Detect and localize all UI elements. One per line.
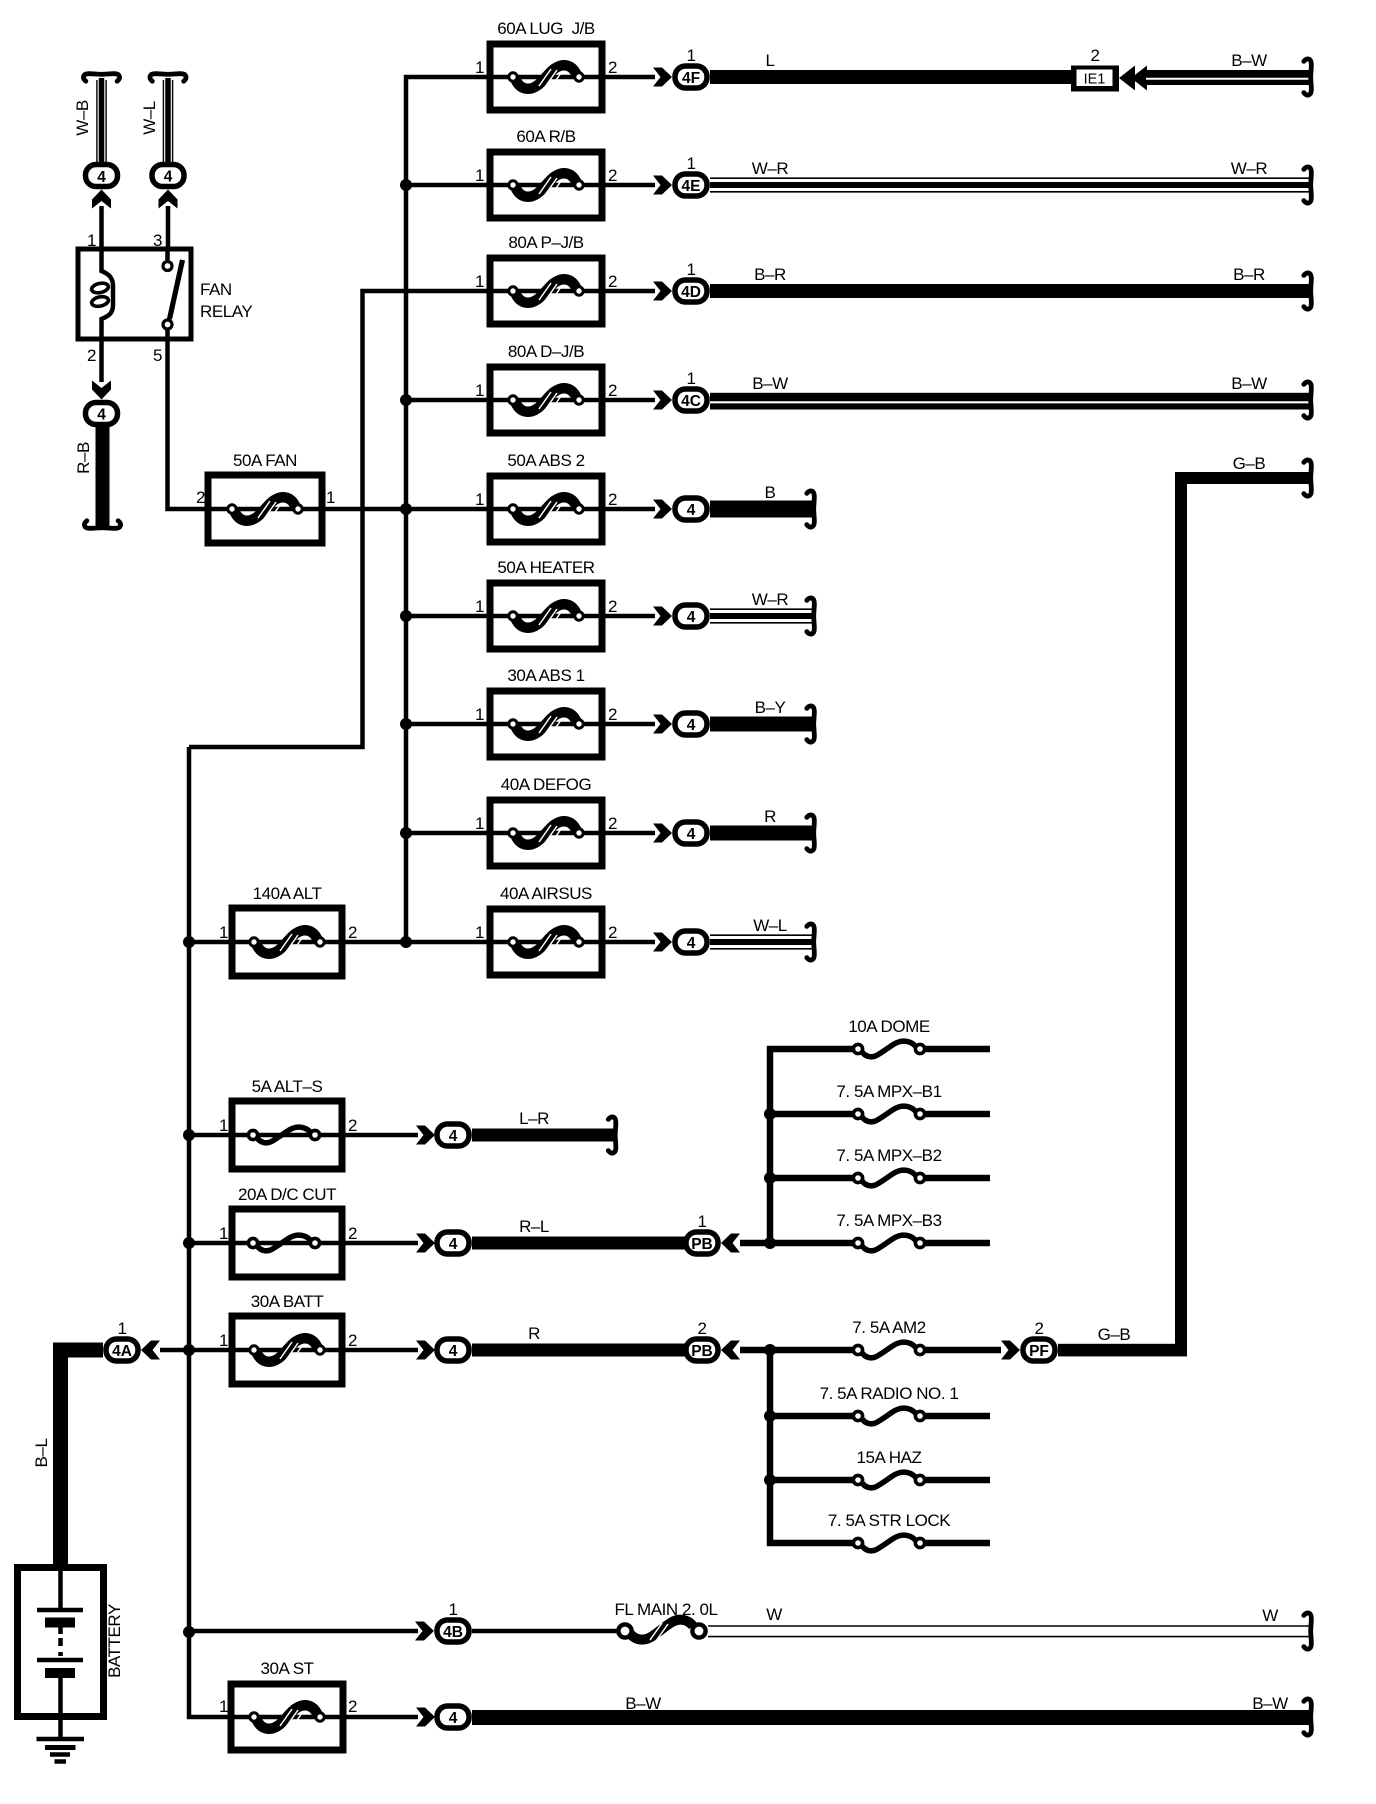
wire fuse to connector	[602, 398, 655, 403]
svg-text:R–L: R–L	[519, 1217, 549, 1236]
wire bus to fuse	[189, 1241, 232, 1246]
wire-break squiggle	[608, 1117, 616, 1153]
wire-break squiggle top of W-B	[83, 74, 119, 82]
battery cells	[37, 1564, 83, 1720]
wire B thick stub	[710, 501, 814, 518]
svg-text:1: 1	[475, 381, 484, 400]
svg-text:R–B: R–B	[74, 442, 93, 474]
wire bus B5	[770, 1350, 854, 1543]
svg-text:L: L	[765, 51, 774, 70]
svg-text:4C: 4C	[681, 393, 701, 410]
wire 140A ALT to 40A AIRSUS	[342, 940, 490, 945]
svg-text:B: B	[765, 483, 776, 502]
svg-text:60A R/B: 60A R/B	[516, 127, 575, 146]
svg-text:50A FAN: 50A FAN	[233, 451, 297, 470]
svg-text:7. 5A MPX–B3: 7. 5A MPX–B3	[836, 1211, 941, 1230]
svg-text:B–W: B–W	[625, 1694, 661, 1713]
svg-text:B–W: B–W	[1231, 374, 1267, 393]
wire-break squiggle	[1304, 1699, 1312, 1735]
arrow into connector 4D	[653, 282, 672, 301]
svg-text:40A DEFOG: 40A DEFOG	[501, 775, 591, 794]
wire B-L thick to battery	[61, 1350, 104, 1564]
svg-text:4: 4	[449, 1343, 458, 1360]
wire bus B3 to 140A ALT	[189, 940, 232, 945]
svg-text:4: 4	[449, 1128, 458, 1145]
svg-text:G–B: G–B	[1098, 1325, 1131, 1344]
svg-text:1: 1	[117, 1319, 126, 1338]
fuse 30A BATT	[232, 1316, 342, 1384]
fuse 60A LUG J/B	[490, 44, 602, 110]
wire-break squiggle	[1304, 273, 1312, 309]
wire G-B vertical + top run	[1181, 478, 1310, 1356]
svg-text:4: 4	[449, 1710, 458, 1727]
svg-text:2: 2	[608, 166, 617, 185]
wire-break squiggle	[807, 924, 815, 960]
fuse 10A DOME	[853, 1041, 990, 1057]
svg-text:RELAY: RELAY	[200, 302, 252, 321]
wire connector to fusible link	[472, 1629, 620, 1634]
arrow into connector 4 (up)	[159, 190, 178, 209]
svg-text:40A AIRSUS: 40A AIRSUS	[500, 884, 592, 903]
svg-text:W–L: W–L	[753, 916, 787, 935]
wire bus to fuse	[406, 614, 490, 619]
wire-break squiggle	[1304, 59, 1312, 95]
wire bus B4	[770, 1049, 854, 1243]
wire L thick	[710, 70, 1072, 84]
svg-text:R: R	[764, 807, 776, 826]
arrow into PB (left)	[721, 1234, 740, 1253]
connector 4C	[675, 389, 707, 411]
arrow into connector 4 (down)	[92, 381, 111, 400]
junction dots on B4	[764, 1108, 776, 1249]
arrow into connector 4C	[653, 391, 672, 410]
arrow into connector 4B	[415, 1622, 434, 1641]
svg-text:30A ABS 1: 30A ABS 1	[507, 666, 584, 685]
wire W-B vertical striped	[97, 78, 106, 162]
svg-text:BATTERY: BATTERY	[105, 1604, 124, 1678]
arrow into PB (left)	[721, 1341, 740, 1360]
wire B-R thick	[710, 284, 1310, 298]
double arrow into IE1	[1119, 66, 1147, 91]
fuse 80A P-J/B	[490, 258, 602, 324]
relay K1 FAN RELAY box	[78, 249, 191, 339]
svg-text:80A P–J/B: 80A P–J/B	[508, 233, 583, 252]
svg-text:PB: PB	[691, 1343, 713, 1360]
svg-text:1: 1	[475, 490, 484, 509]
svg-text:50A HEATER: 50A HEATER	[497, 558, 594, 577]
wire W-R striped stub	[710, 609, 814, 623]
wire fuse to connector	[342, 1348, 418, 1353]
connector 4	[437, 1232, 469, 1254]
wire fuse to connector	[602, 940, 655, 945]
svg-text:2: 2	[608, 490, 617, 509]
svg-text:4D: 4D	[681, 284, 701, 301]
connector 4D	[675, 280, 707, 302]
svg-text:5A ALT–S: 5A ALT–S	[252, 1077, 323, 1096]
arrow into connector 4 (up)	[92, 190, 111, 209]
svg-text:FL MAIN 2. 0L: FL MAIN 2. 0L	[614, 1600, 717, 1619]
svg-text:2: 2	[348, 1116, 357, 1135]
fuse 50A ABS 2	[490, 476, 602, 542]
svg-text:5: 5	[153, 346, 162, 365]
arrow into connector 4E	[653, 176, 672, 195]
fuse 7.5A RADIO NO. 1	[770, 1408, 990, 1424]
arrow into connector 4	[416, 1234, 435, 1253]
wire bus to fuse	[189, 1348, 232, 1353]
wire W-L striped stub	[710, 935, 814, 949]
wire W-L vertical striped	[163, 78, 172, 162]
wire B-W thick	[472, 1710, 1310, 1725]
svg-text:2: 2	[608, 814, 617, 833]
arrow into connector PF	[1001, 1341, 1020, 1360]
wire-break squiggle	[1304, 382, 1312, 418]
svg-text:B–W: B–W	[1231, 51, 1267, 70]
svg-text:140A ALT: 140A ALT	[253, 884, 322, 903]
wire fuse to connector	[602, 75, 655, 80]
svg-text:1: 1	[326, 488, 335, 507]
connector PB pin 2	[686, 1339, 718, 1361]
wire R thick	[472, 1344, 685, 1357]
arrow into 4A (left)	[141, 1341, 160, 1360]
svg-text:2: 2	[348, 1331, 357, 1350]
wire B-W (black w/ white stripe)	[1146, 70, 1310, 85]
svg-text:W–L: W–L	[140, 101, 159, 135]
wire pin3 to relay	[166, 206, 171, 251]
relay switch contacts and blade	[163, 251, 183, 338]
wire-break squiggle	[807, 815, 815, 851]
wire-break squiggle bottom of R-B	[84, 521, 120, 529]
wire bus B3 (left feed, x=189)	[189, 747, 232, 1717]
connector PB pin 1	[686, 1232, 718, 1254]
fuse 140A ALT	[232, 908, 342, 976]
svg-text:7. 5A MPX–B1: 7. 5A MPX–B1	[836, 1082, 941, 1101]
svg-text:B–W: B–W	[752, 374, 788, 393]
svg-text:4B: 4B	[443, 1624, 463, 1641]
svg-text:2: 2	[348, 1224, 357, 1243]
svg-text:PB: PB	[691, 1236, 713, 1253]
connector 4	[675, 713, 707, 735]
svg-text:2: 2	[608, 58, 617, 77]
svg-text:1: 1	[686, 369, 695, 388]
connector 4F	[675, 66, 707, 88]
svg-text:FAN: FAN	[200, 280, 232, 299]
svg-text:4E: 4E	[682, 178, 701, 195]
svg-text:2: 2	[1034, 1319, 1043, 1338]
arrow into connector 4	[653, 933, 672, 952]
svg-text:1: 1	[475, 166, 484, 185]
svg-text:4: 4	[164, 169, 173, 186]
svg-text:4: 4	[97, 407, 106, 424]
fuse 40A AIRSUS	[490, 909, 602, 975]
svg-text:60A LUG J/B: 60A LUG J/B	[497, 19, 595, 38]
svg-text:1: 1	[475, 58, 484, 77]
svg-text:2: 2	[348, 923, 357, 942]
fuse 40A DEFOG	[490, 800, 602, 866]
svg-text:1: 1	[475, 705, 484, 724]
fuse 20A D/C CUT	[232, 1209, 342, 1277]
junction block IE1	[1071, 66, 1119, 92]
svg-text:50A ABS 2: 50A ABS 2	[507, 451, 584, 470]
connector 4E	[675, 174, 707, 196]
wire fuse to connector	[602, 183, 655, 188]
connector 4	[675, 822, 707, 844]
svg-text:IE1: IE1	[1084, 72, 1106, 88]
connector 4	[437, 1339, 469, 1361]
svg-text:2: 2	[608, 381, 617, 400]
svg-text:L–R: L–R	[519, 1109, 549, 1128]
svg-text:7. 5A AM2: 7. 5A AM2	[852, 1318, 925, 1337]
svg-text:7. 5A RADIO NO. 1: 7. 5A RADIO NO. 1	[820, 1384, 959, 1403]
connector 4A	[106, 1339, 138, 1361]
wire fuse to connector	[602, 831, 655, 836]
svg-text:1: 1	[219, 1697, 228, 1716]
svg-text:W–R: W–R	[752, 159, 789, 178]
svg-text:4F: 4F	[682, 70, 700, 87]
wire fuse to connector	[602, 722, 655, 727]
wire B-W striped thick	[710, 393, 1310, 410]
svg-text:1: 1	[697, 1212, 706, 1231]
fuse 7.5A MPX-B3	[770, 1235, 990, 1251]
arrow into connector 4F	[653, 68, 672, 87]
svg-text:W: W	[766, 1605, 782, 1624]
fuse 7.5A STR LOCK	[853, 1535, 990, 1551]
fuse 7.5A AM2	[770, 1342, 1001, 1358]
svg-text:20A D/C CUT: 20A D/C CUT	[238, 1185, 336, 1204]
wire fuse to connector	[342, 1133, 418, 1138]
connector 4	[675, 605, 707, 627]
svg-text:15A HAZ: 15A HAZ	[857, 1448, 922, 1467]
relay coil	[91, 251, 113, 338]
wire-break squiggle	[1304, 460, 1312, 496]
connector 4	[437, 1706, 469, 1728]
wire W-R striped	[710, 178, 1310, 192]
svg-text:80A D–J/B: 80A D–J/B	[508, 342, 584, 361]
fuse 30A ABS 1	[490, 691, 602, 757]
svg-text:1: 1	[686, 154, 695, 173]
wire fuse to connector	[602, 289, 655, 294]
svg-text:2: 2	[87, 346, 96, 365]
wire R-L thick	[472, 1237, 685, 1250]
svg-text:1: 1	[219, 1116, 228, 1135]
connector 4 (above relay pin 3)	[152, 165, 184, 187]
fuse 50A HEATER	[490, 583, 602, 649]
wire bus to fuse	[189, 1133, 232, 1138]
arrow into connector 4	[416, 1341, 435, 1360]
battery box	[18, 1568, 104, 1717]
junction dots on B5	[764, 1344, 776, 1486]
svg-text:G–B: G–B	[1233, 454, 1266, 473]
wire-break squiggle top of W-L	[150, 74, 186, 82]
svg-text:4: 4	[97, 169, 106, 186]
svg-text:1: 1	[219, 1224, 228, 1243]
wire bus to connector	[189, 1629, 418, 1634]
wire fuse to connector	[342, 1241, 418, 1246]
arrow into connector 4	[653, 715, 672, 734]
wire fuse to connector	[343, 1715, 418, 1720]
svg-text:1: 1	[448, 1600, 457, 1619]
connector 4 (above relay pin 1)	[86, 165, 118, 187]
wire bus to fuse	[406, 398, 490, 403]
svg-text:1: 1	[219, 923, 228, 942]
connector 4	[675, 498, 707, 520]
wire bus to fuse	[406, 183, 490, 188]
wire bus B2 (x=362.5 to left bus)	[189, 291, 490, 747]
wire R thick stub	[710, 826, 814, 841]
fuse 7.5A MPX-B1	[770, 1106, 990, 1122]
svg-text:W–R: W–R	[1231, 159, 1268, 178]
wire W (white, outline only)	[708, 1626, 1310, 1637]
wire relay pin5 down to 50A FAN	[168, 339, 209, 509]
wire B-Y thick stub	[710, 717, 814, 732]
svg-text:1: 1	[475, 597, 484, 616]
svg-text:4A: 4A	[112, 1343, 132, 1360]
wire-break squiggle	[1304, 1613, 1312, 1649]
connector 4	[675, 931, 707, 953]
arrow into connector 4	[653, 607, 672, 626]
fuse 5A ALT-S	[232, 1101, 342, 1169]
fusible link FL MAIN 2.0L	[618, 1620, 705, 1641]
fuse 50A FAN	[208, 475, 322, 543]
connector 4 (below relay pin 2)	[86, 403, 118, 425]
wire pin1 to relay	[99, 206, 104, 251]
svg-text:30A BATT: 30A BATT	[251, 1292, 324, 1311]
svg-text:B–L: B–L	[32, 1439, 51, 1468]
junction dots on B3	[183, 936, 195, 1638]
svg-text:4: 4	[687, 717, 696, 734]
svg-text:PF: PF	[1029, 1343, 1049, 1360]
svg-text:B–Y: B–Y	[755, 698, 786, 717]
wire arrow to bus B5	[740, 1347, 773, 1354]
svg-text:1: 1	[686, 260, 695, 279]
svg-text:2: 2	[608, 923, 617, 942]
fuse 15A HAZ	[770, 1472, 990, 1488]
wire 50A FAN output to bus	[322, 507, 490, 512]
wire relay pin2 down	[99, 339, 104, 382]
svg-text:7. 5A STR LOCK: 7. 5A STR LOCK	[828, 1511, 951, 1530]
wire arrow to bus B3	[160, 1348, 189, 1353]
ground	[37, 1716, 85, 1762]
svg-text:W–B: W–B	[73, 100, 92, 136]
svg-text:1: 1	[475, 814, 484, 833]
wire bus B1 (fuse feed, x=406)	[406, 77, 490, 942]
svg-text:R: R	[528, 1324, 540, 1343]
svg-text:2: 2	[608, 272, 617, 291]
wire-break squiggle	[1304, 167, 1312, 203]
connector 4B	[437, 1620, 469, 1642]
arrow into connector 4	[416, 1708, 435, 1727]
svg-text:2: 2	[697, 1319, 706, 1338]
svg-text:4: 4	[687, 609, 696, 626]
svg-text:W–R: W–R	[752, 590, 789, 609]
svg-text:2: 2	[608, 705, 617, 724]
svg-text:4: 4	[687, 502, 696, 519]
svg-text:B–W: B–W	[1252, 1694, 1288, 1713]
svg-text:1: 1	[686, 46, 695, 65]
svg-text:10A DOME: 10A DOME	[848, 1017, 930, 1036]
svg-text:2: 2	[1090, 46, 1099, 65]
svg-text:B–R: B–R	[754, 265, 786, 284]
wire bus to fuse	[406, 722, 490, 727]
wire-break squiggle	[807, 598, 815, 634]
svg-text:1: 1	[475, 923, 484, 942]
wire arrow to bus B4	[740, 1240, 773, 1247]
svg-text:W: W	[1262, 1606, 1278, 1625]
wire G-B thick to vertical	[1058, 1344, 1187, 1357]
wire fuse to connector	[602, 614, 655, 619]
svg-text:7. 5A MPX–B2: 7. 5A MPX–B2	[836, 1146, 941, 1165]
svg-text:1: 1	[475, 272, 484, 291]
wire L-R thick	[472, 1129, 615, 1142]
wire R-B thick	[96, 427, 110, 528]
svg-text:2: 2	[196, 488, 205, 507]
junction dots on B1	[400, 179, 412, 948]
svg-text:4: 4	[687, 935, 696, 952]
svg-text:30A ST: 30A ST	[260, 1659, 313, 1678]
svg-text:1: 1	[219, 1331, 228, 1350]
fuse 80A D-J/B	[490, 367, 602, 433]
wire-break squiggle	[807, 706, 815, 742]
svg-text:2: 2	[608, 597, 617, 616]
svg-text:4: 4	[687, 826, 696, 843]
fuse 30A ST	[231, 1684, 343, 1750]
wire-break squiggle	[807, 491, 815, 527]
svg-text:B–R: B–R	[1233, 265, 1265, 284]
fuse 7.5A MPX-B2	[770, 1170, 990, 1186]
wire fuse to connector	[602, 507, 655, 512]
connector 4	[437, 1124, 469, 1146]
arrow into connector 4	[653, 500, 672, 519]
svg-text:2: 2	[348, 1697, 357, 1716]
fuse 60A R/B	[490, 152, 602, 218]
arrow into connector 4	[653, 824, 672, 843]
connector PF	[1023, 1339, 1055, 1361]
arrow into connector 4	[416, 1126, 435, 1145]
wire bus to fuse	[406, 831, 490, 836]
svg-text:4: 4	[449, 1236, 458, 1253]
